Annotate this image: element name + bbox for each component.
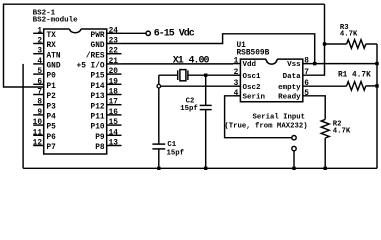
svg-text:/RES: /RES [86, 52, 105, 60]
svg-text:11: 11 [33, 129, 43, 137]
svg-text:P13: P13 [91, 93, 105, 101]
svg-text:12: 12 [33, 140, 43, 148]
svg-text:16: 16 [109, 109, 119, 117]
svg-text:Osc1: Osc1 [243, 73, 262, 81]
junction Vss / right border [375, 62, 378, 65]
wire R1 right lead [366, 85, 377, 87]
svg-text:C1: C1 [167, 141, 176, 149]
svg-text:14: 14 [109, 129, 119, 137]
svg-text:17: 17 [109, 99, 119, 107]
svg-text:P7: P7 [47, 144, 57, 152]
BS2 pin 11 lead [33, 134, 44, 136]
BS2 pin 3 lead [33, 53, 44, 55]
svg-text:GND: GND [91, 42, 105, 50]
svg-text:15pf: 15pf [167, 149, 185, 157]
svg-text:2: 2 [234, 69, 239, 77]
svg-text:P8: P8 [95, 144, 105, 152]
junction R1 / right border [375, 84, 378, 87]
terminal serial input ground [292, 146, 296, 150]
svg-text:4.7K: 4.7K [340, 31, 358, 39]
svg-text:P10: P10 [91, 124, 105, 132]
svg-text:7: 7 [37, 89, 42, 97]
svg-text:empty: empty [278, 84, 301, 92]
wire crystal to U1 Osc1 [206, 74, 233, 76]
BS2 pin 6 lead [33, 83, 44, 85]
svg-text:GND: GND [47, 63, 61, 71]
svg-text:10: 10 [33, 119, 43, 127]
node Osc2 (open junction) [157, 84, 161, 88]
svg-text:5: 5 [37, 68, 42, 76]
BS2 pin 2 lead [33, 43, 44, 45]
svg-text:P14: P14 [91, 83, 105, 91]
IC U1 RSB509B body [266, 59, 277, 64]
svg-text:8: 8 [304, 58, 309, 66]
junction serial gnd / rail [292, 167, 295, 170]
svg-text:6: 6 [304, 80, 309, 88]
svg-text:+5 I/O: +5 I/O [77, 63, 105, 71]
BS2 pin 5 lead [33, 73, 44, 75]
wire pin24 PWR to supply terminal [122, 32, 146, 34]
resistor R3 [347, 40, 366, 49]
svg-text:9: 9 [37, 109, 42, 117]
BS2 pin 19 lead [107, 83, 122, 85]
svg-text:4.7K: 4.7K [333, 128, 351, 136]
wire U1 Serin to serial input terminal [225, 96, 292, 138]
svg-text:1: 1 [37, 27, 42, 35]
svg-text:BS2-module: BS2-module [33, 16, 79, 24]
U1 pin 4 lead [233, 95, 240, 97]
wire R3 left lead [325, 43, 347, 45]
BS2 pin 24 lead [107, 32, 122, 34]
svg-text:23: 23 [109, 38, 119, 46]
resistor R2 [321, 119, 329, 138]
svg-text:P5: P5 [47, 124, 57, 132]
wire serial gnd to rail [293, 151, 295, 169]
svg-text:ATN: ATN [47, 52, 61, 60]
svg-text:P6: P6 [47, 134, 57, 142]
wire R3 right lead [366, 43, 377, 45]
svg-text:19: 19 [109, 78, 119, 86]
ground rail [23, 167, 377, 169]
svg-text:Ready: Ready [278, 93, 301, 101]
BS2 pin 20 lead [107, 73, 122, 75]
IC BS2 (BASIC Stamp 2) body [70, 29, 81, 33]
wire U1 pin6 to R1 [303, 85, 347, 87]
svg-text:20: 20 [109, 68, 119, 76]
svg-text:15pf: 15pf [180, 105, 198, 113]
BS2 pin 16 lead [107, 114, 122, 116]
U1 pin 3 lead [233, 85, 240, 87]
junction R2 / rail [324, 167, 327, 170]
junction Data / R3 [323, 42, 326, 45]
BS2 pin 8 lead [33, 104, 44, 106]
BS2 pin 15 lead [107, 124, 122, 126]
svg-text:4: 4 [37, 58, 42, 66]
svg-text:P0: P0 [47, 73, 57, 81]
BS2 pin 13 lead [107, 145, 122, 147]
terminal 6-15 Vdc [146, 31, 150, 35]
svg-text:1: 1 [234, 58, 239, 66]
junction C2 / rail [204, 167, 207, 170]
BS2 pin 7 lead [33, 94, 44, 96]
svg-text:Serin: Serin [243, 93, 266, 101]
svg-text:P3: P3 [47, 103, 57, 111]
crystal X1 [159, 74, 178, 76]
BS2 pin 1 lead [33, 32, 44, 34]
svg-text:18: 18 [109, 89, 119, 97]
svg-text:6-15 Vdc: 6-15 Vdc [154, 28, 195, 40]
wire BS2 pin4 GND down to ground rail [22, 64, 24, 168]
svg-text:RSB509B: RSB509B [237, 49, 270, 57]
svg-text:Data: Data [283, 73, 302, 81]
svg-text:7: 7 [304, 69, 309, 77]
svg-text:15: 15 [109, 119, 119, 127]
junction GND / Vss lead [313, 62, 316, 65]
wire U1 Data up to top frame [303, 4, 325, 75]
resistor R1 [347, 82, 366, 91]
wire R2 bottom lead [324, 138, 326, 168]
wire U1 Vss to right border (GND) [303, 63, 377, 65]
svg-text:X1: X1 [173, 56, 184, 67]
terminal serial input signal [292, 136, 296, 140]
svg-text:Vdd: Vdd [243, 61, 257, 69]
BS2 pin 12 lead [33, 145, 44, 147]
U1 pin 1 lead [233, 63, 240, 65]
svg-text:P12: P12 [91, 103, 105, 111]
svg-text:P4: P4 [47, 114, 57, 122]
BS2 pin 10 lead [33, 124, 44, 126]
BS2 pin 21 lead [107, 63, 122, 65]
BS2 pin 23 lead [107, 43, 122, 45]
svg-text:R1 4.7K: R1 4.7K [338, 72, 371, 80]
svg-text:21: 21 [109, 58, 119, 66]
BS2 pin 4 lead [33, 63, 44, 65]
wire Osc2 node to U1 Osc2 [161, 85, 233, 87]
wire crystal left to Osc2 node [158, 75, 160, 84]
svg-text:4: 4 [234, 90, 239, 98]
svg-text:PWR: PWR [91, 32, 105, 40]
BS2 pin 18 lead [107, 94, 122, 96]
capacitor C2 [205, 75, 207, 105]
svg-text:P11: P11 [91, 114, 105, 122]
svg-text:4.00: 4.00 [189, 56, 210, 67]
svg-text:5: 5 [304, 90, 309, 98]
U1 pin 2 lead [233, 74, 240, 76]
svg-text:RX: RX [47, 42, 57, 50]
svg-text:(True, from MAX232): (True, from MAX232) [224, 122, 307, 130]
BS2 pin 17 lead [107, 104, 122, 106]
BS2 pin 14 lead [107, 134, 122, 136]
BS2 pin 9 lead [33, 114, 44, 116]
svg-text:P2: P2 [47, 93, 57, 101]
wire pin23 GND to U1 Vss net [122, 34, 315, 64]
capacitor C1 [158, 88, 160, 144]
right border wire [376, 44, 378, 168]
svg-text:P9: P9 [95, 134, 105, 142]
svg-text:22: 22 [109, 48, 119, 56]
wire U1 Ready to R2 [303, 96, 325, 120]
svg-text:8: 8 [37, 99, 42, 107]
BS2 pin 22 lead [107, 53, 122, 55]
junction C1 / rail [157, 167, 160, 170]
svg-text:P1: P1 [47, 83, 57, 91]
svg-text:Vss: Vss [287, 61, 301, 69]
svg-text:P15: P15 [91, 73, 105, 81]
svg-text:24: 24 [109, 27, 119, 35]
svg-text:Osc2: Osc2 [243, 84, 262, 92]
svg-text:6: 6 [37, 78, 42, 86]
svg-text:2: 2 [37, 38, 42, 46]
wire pin21 +5 to U1 Vdd [122, 63, 234, 65]
wire top + left frame (data net) [4, 4, 325, 87]
junction Osc1 node [204, 74, 207, 77]
svg-text:TX: TX [47, 32, 57, 40]
svg-text:3: 3 [37, 48, 42, 56]
svg-text:13: 13 [109, 140, 119, 148]
svg-text:Serial Input: Serial Input [253, 113, 306, 121]
svg-text:3: 3 [234, 80, 239, 88]
